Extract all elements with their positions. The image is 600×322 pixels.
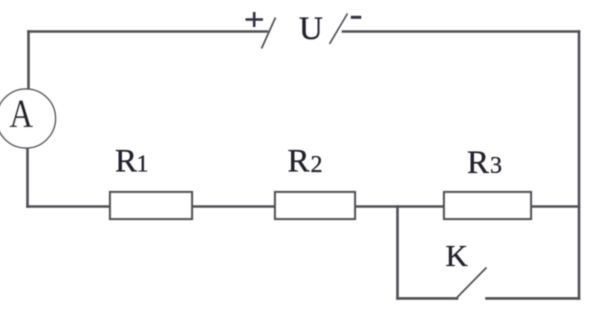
svg-text:R: R bbox=[288, 144, 310, 180]
svg-text:R: R bbox=[115, 143, 137, 179]
svg-text:K: K bbox=[446, 238, 469, 273]
svg-text:2: 2 bbox=[311, 152, 323, 178]
svg-text:1: 1 bbox=[137, 152, 149, 178]
svg-text:A: A bbox=[10, 91, 34, 136]
svg-text:U: U bbox=[299, 11, 323, 47]
svg-text:3: 3 bbox=[490, 153, 502, 179]
svg-text:R: R bbox=[467, 145, 489, 181]
